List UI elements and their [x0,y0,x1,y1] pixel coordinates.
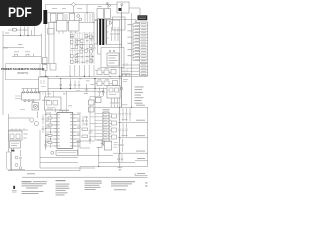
capacitor C607 [114,27,116,41]
resistor R609 [82,128,88,131]
capacitor C613 [82,116,84,126]
regulator IC603 [89,100,95,105]
crystal X601 [56,150,78,155]
capacitor C612 [69,81,71,89]
wire labels left [5,33,30,52]
capacitor bank CB2 [118,108,131,121]
note right text block [135,87,144,104]
node feed dots [45,114,51,140]
resistor R611 [114,143,118,148]
wire main buses [22,5,148,154]
wire CN601 labels [128,25,133,56]
parts grid block [59,31,94,64]
note logo mark [12,186,17,193]
wire box boundary [40,130,95,168]
wire driver labels [47,94,72,107]
capacitor C615 [110,98,118,107]
IC U602 box left [57,21,68,32]
IC U603 [117,2,129,13]
wire bottom center [40,141,135,167]
capacitor bank CB5 [117,154,123,162]
resistor R601 [65,14,67,21]
diode D604 [110,21,113,25]
capacitor C602 [58,13,64,22]
fuse F601 [13,28,16,31]
IC IC601 [54,110,76,149]
ground [117,153,122,171]
lamp DS601 [32,103,39,110]
wire right bus grid [95,107,148,166]
wire bus left labels [122,105,128,136]
wire frame bottom [22,176,148,178]
wire lamp feed [15,92,43,110]
wire IC601 right wires [76,79,95,148]
relay RY602 [109,5,111,7]
IC U602 box right [69,21,80,32]
capacitor C601 [51,13,57,22]
diode D601 [71,2,75,6]
PDF badge [0,0,42,26]
connector CN602 footprint [22,89,41,102]
connector plug P601 [30,118,39,126]
wire pin labels scatter [46,113,88,142]
thermistor TH602 [79,18,82,21]
capacitor bank CB4 [118,139,123,152]
connector CN601 [140,22,148,63]
wire secondary runs [95,71,113,84]
fuse F605 [11,150,15,152]
resistor R610 [124,63,127,72]
capacitor C608 [117,27,119,41]
node C [15,156,18,159]
relay RY603 [39,77,49,92]
note above line [27,173,35,175]
capacitor C606 [110,27,112,41]
wire IC601 left wires [46,115,54,147]
capacitor C605 [90,14,92,22]
note block 3 [85,181,103,190]
capacitor C611 [60,81,62,89]
title box [5,64,40,80]
wire secondary labels [76,67,116,94]
note block 4 [111,181,135,190]
regulator IC604 [96,98,102,103]
capacitor C623 [74,81,80,89]
node junction row [20,35,29,36]
wire left lower [9,112,38,172]
wire bus labels [136,105,145,151]
resistor R614 [112,121,117,125]
wire right rows [122,65,140,74]
resistor R606 [89,131,93,133]
connector P602 shell [7,152,11,170]
IC U605 [50,64,56,71]
node junction sprinkle [45,12,132,167]
node G [120,87,123,90]
capacitor C618 [19,150,21,166]
wire left ac entry [3,27,42,116]
svg-text:(TRN/P70): (TRN/P70) [17,72,29,75]
resistor R612 [82,135,88,138]
wire bottom-left [9,148,148,171]
resistor R616 [112,135,117,139]
resistor R617 [43,65,48,71]
wire bus drops [61,65,103,95]
diode D602 [97,9,104,19]
wire stub labels [137,159,145,174]
capacitor C617 [89,136,91,144]
resistor R604 [48,117,52,119]
capacitor C614 [85,116,87,126]
diode D610 [97,140,103,147]
secondary rectifier cluster [97,69,118,85]
node D [15,164,18,167]
capacitor C616 [44,140,46,150]
wire transformer bottom [94,45,101,55]
wire transformer taps [94,20,122,45]
node E [19,167,22,170]
capacitor C622 [98,88,108,97]
wire mid rails [90,97,103,142]
IC U611 [107,86,120,99]
svg-text:POWER SCHEMATIC DIAGRAM: POWER SCHEMATIC DIAGRAM [1,67,45,71]
note block 1 [22,181,48,194]
transformer T601 secondary winding [105,20,107,45]
node F [51,151,54,154]
wire box labels [24,134,28,138]
relay RY601 [106,3,108,5]
connector CN603 lower cells [140,64,148,76]
IC U608 [104,141,112,150]
resistor R613 [112,114,117,118]
wire CN601 pin names [135,23,139,60]
wire fuse row [12,54,42,57]
note block 5 [145,183,148,187]
wire AC input rows [47,13,94,24]
IC U607 [10,141,21,148]
note block 2 [56,180,70,195]
resistor R607 [48,135,52,137]
wire CN601 pin wires [133,24,140,61]
resistor block R602 [48,29,55,35]
ground [85,84,88,92]
wire right stubs [135,161,148,176]
IC U604 snubber box [113,17,126,30]
resistor R608 [48,142,52,144]
thermistor TH601 [77,15,80,18]
capacitor C620 [42,115,44,125]
wire top frame [46,5,122,108]
wire driver feed [49,91,67,112]
transformer T601 primary winding [96,20,98,45]
capacitor C604 [85,14,87,22]
diode D603 [105,9,111,19]
wire top row labels [52,7,102,9]
wire IC feed rails [51,108,56,148]
IC U609 feedback box [101,48,124,68]
transistor Q603 [119,8,122,11]
connector CN604 [138,15,148,20]
regulator IC605 [89,107,95,112]
wire rectifier cluster [94,2,136,44]
transformer T601 core [99,19,101,45]
resistor cluster right mid [123,74,130,82]
IC IC602 [101,109,112,145]
capacitor C603 [70,13,75,22]
resistor R605 [48,124,52,126]
node junction dots [45,76,120,92]
capacitor bank CB3 [118,123,127,137]
resistor R603 [43,58,48,64]
wire U603 output [129,8,140,63]
capacitor C621 [42,126,44,134]
IC U610 driver box [45,97,62,110]
resistor R615 [112,128,117,132]
wire left rails [41,22,56,76]
IC U606 [9,131,23,140]
inductor L601 [43,10,47,24]
relay label [42,99,50,102]
wire top drops [45,5,87,13]
node A [121,4,123,6]
